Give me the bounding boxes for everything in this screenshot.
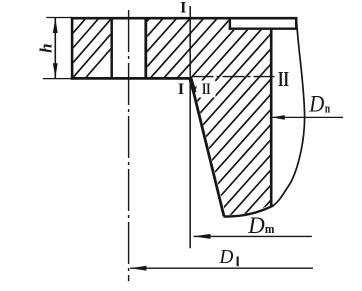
svg-text:n: n bbox=[325, 100, 331, 115]
svg-text:h: h bbox=[37, 43, 56, 52]
dimension h: bottom extension line bbox=[43, 78, 72, 80]
dimension h: top extension line bbox=[46, 17, 72, 19]
svg-text:I: I bbox=[180, 0, 186, 16]
web bottom edge bbox=[224, 206, 274, 217]
dimension h: dimension line bbox=[54, 18, 56, 79]
break curve (right boundary) bbox=[273, 19, 304, 206]
svg-text:II: II bbox=[202, 81, 211, 98]
dimension Dn: arrowhead bbox=[272, 115, 285, 120]
svg-text:D: D bbox=[308, 92, 324, 117]
dimension h: up arrowhead bbox=[53, 18, 58, 33]
vertical centerline (dash-dot) bbox=[128, 10, 130, 281]
web left slant edge bbox=[190, 78, 224, 216]
dimension D1: line bbox=[130, 267, 313, 269]
step bottom edge bbox=[229, 28, 298, 30]
step vertical edge bbox=[229, 17, 231, 30]
hatching of main body bbox=[0, 10, 362, 228]
web right edge bbox=[270, 29, 273, 207]
section line I (vertical, also Dm extension line) bbox=[189, 6, 191, 248]
svg-text:D: D bbox=[218, 246, 233, 268]
rim right short edge bbox=[295, 17, 297, 30]
label II background patch bbox=[197, 81, 216, 98]
dimension h: down arrowhead bbox=[53, 63, 58, 78]
svg-text:D: D bbox=[247, 213, 265, 238]
hatching of left block bbox=[18, 15, 141, 82]
section line II (horizontal dash-dot) bbox=[192, 76, 275, 78]
dimension Dm: line bbox=[194, 235, 312, 237]
bore wall left (vertical at x=111.7) bbox=[110, 17, 113, 80]
web slant junction blob bbox=[190, 78, 194, 92]
dimension Dm: arrowhead bbox=[194, 234, 211, 239]
svg-text:I: I bbox=[178, 81, 184, 98]
bore wall right (vertical at x=145.8) bbox=[144, 17, 147, 80]
svg-text:II: II bbox=[278, 67, 289, 91]
svg-text:m: m bbox=[265, 221, 275, 236]
rim left edge bbox=[71, 17, 74, 80]
rim bottom edge bbox=[71, 77, 191, 80]
dimension Dn: line bbox=[272, 116, 343, 118]
dimension D1: arrowhead bbox=[130, 266, 147, 271]
rim top edge bbox=[71, 17, 297, 20]
